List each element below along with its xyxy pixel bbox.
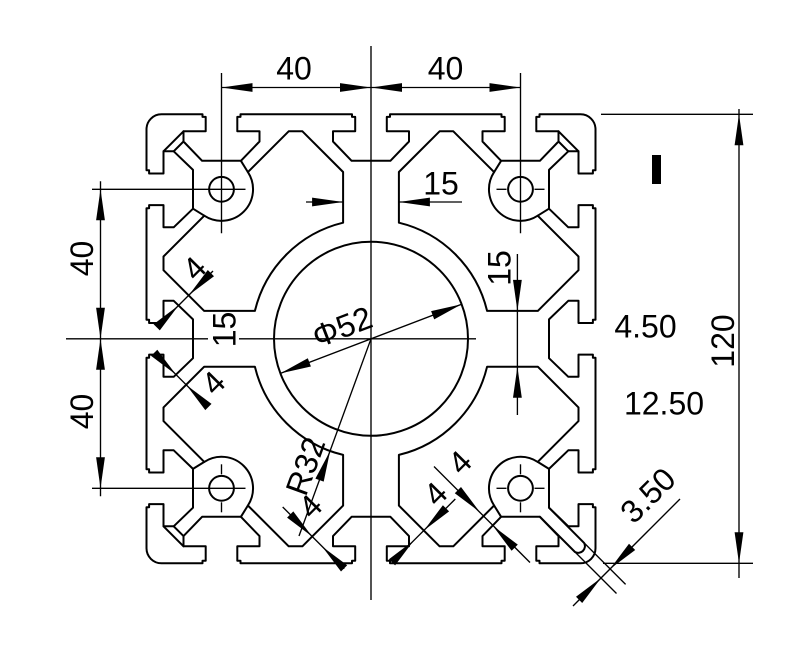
svg-text:40: 40 xyxy=(64,241,100,277)
ext line 120 top xyxy=(601,113,753,115)
dim line left 40s xyxy=(100,181,102,496)
corner chevron q0 xyxy=(164,131,184,151)
svg-text:12.50: 12.50 xyxy=(624,386,704,422)
corner hole q1 xyxy=(508,177,533,202)
dim line R32 xyxy=(299,339,371,536)
hole ticks TR xyxy=(497,188,507,190)
dim line phi52 xyxy=(280,304,461,373)
arrow 15 east N xyxy=(513,280,522,311)
arrow top mid R xyxy=(371,83,402,92)
svg-text:15: 15 xyxy=(481,250,517,286)
hole ticks BL xyxy=(221,464,223,474)
arrow 15 top R xyxy=(399,198,430,207)
BR corner channel xyxy=(540,508,585,553)
dim line 3.50 xyxy=(573,499,680,606)
dim line 120 xyxy=(738,109,740,578)
boss knife connector S q0 xyxy=(193,209,204,216)
svg-text:15: 15 xyxy=(207,312,243,348)
arrow 120 bottom xyxy=(735,532,744,563)
quadrant cavity loop q0 xyxy=(164,131,344,311)
arrow left top xyxy=(96,189,105,220)
quadrant cavity loop q2 xyxy=(399,367,579,547)
boss knife connector S q3 xyxy=(241,506,248,517)
vertical centerline xyxy=(370,46,372,600)
ext line 120 bottom xyxy=(603,562,753,564)
boss knife connector S q2 xyxy=(538,462,549,469)
label I xyxy=(652,155,661,184)
boss knife connector N q0 xyxy=(241,161,248,172)
arrow 15 top L xyxy=(312,198,343,207)
central bore circle (phi52) xyxy=(274,242,468,436)
arrow left mid D xyxy=(96,339,105,370)
horizontal centerline left xyxy=(66,338,208,340)
quadrant cavity loop q3 xyxy=(164,367,344,547)
dim line 15 top L xyxy=(306,201,343,203)
arrow phi52 W xyxy=(280,358,311,373)
horizontal centerline right xyxy=(239,338,476,340)
boss knife connector N q2 xyxy=(494,506,501,517)
svg-text:40: 40 xyxy=(428,51,464,87)
dim line 15 top R xyxy=(399,201,462,203)
arrow 3.50 SW xyxy=(576,578,601,603)
ext line left holes horiz 1 xyxy=(92,188,246,190)
arrow top right xyxy=(490,83,521,92)
svg-text:40: 40 xyxy=(276,51,312,87)
arrow R32 xyxy=(315,451,330,482)
arrow phi52 E xyxy=(431,304,462,319)
dim line 15 east xyxy=(516,254,518,415)
svg-text:15: 15 xyxy=(423,166,459,202)
ext line top-right hole vert xyxy=(520,73,522,233)
boss knife connector N q1 xyxy=(538,209,549,216)
ext line left holes horiz 2 xyxy=(92,487,246,489)
arrow 15 east S xyxy=(513,367,522,398)
hole ticks BR xyxy=(520,464,522,474)
corner chevron q3 xyxy=(164,526,184,546)
corner hole q3 xyxy=(209,476,234,501)
ext line 3.50 NE xyxy=(584,543,626,585)
dim 4 bottom-mid xyxy=(283,507,345,569)
corner chevron q1 xyxy=(559,131,579,151)
svg-text:120: 120 xyxy=(705,314,741,367)
arrow left bottom xyxy=(96,457,105,488)
dim 4 left-upper xyxy=(158,271,213,326)
ext line top-left hole vert xyxy=(221,73,223,233)
dim line top 40s xyxy=(222,87,521,89)
arrow top left xyxy=(222,83,253,92)
dim 4 bottom-right xyxy=(434,467,530,563)
svg-text:40: 40 xyxy=(64,394,100,430)
arrow 120 top xyxy=(735,114,744,145)
ext line 3.50 SW xyxy=(575,552,617,594)
arrow 3.50 NE xyxy=(610,544,635,569)
arrow left mid U xyxy=(96,308,105,339)
dim 4 left-lower xyxy=(158,357,207,406)
corner hole q0 xyxy=(209,177,234,202)
boss knife connector N q3 xyxy=(193,462,204,469)
boss knife connector S q1 xyxy=(494,161,501,172)
corner hole q2 xyxy=(508,476,533,501)
arrow top mid L xyxy=(340,83,371,92)
svg-text:4.50: 4.50 xyxy=(614,309,676,345)
quadrant cavity loop q1 xyxy=(399,131,579,311)
profile outer boundary with T-slots xyxy=(147,114,596,563)
dim 4 bottom-mid-E xyxy=(403,499,455,551)
